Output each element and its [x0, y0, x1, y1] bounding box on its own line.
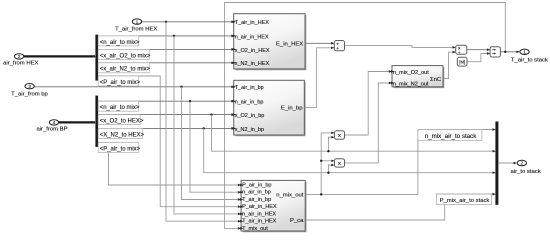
- svg-text:T_air_in_HEX: T_air_in_HEX: [235, 20, 270, 26]
- svg-text:n_air_in_bp: n_air_in_bp: [235, 100, 264, 106]
- svg-text:air_from HEX: air_from HEX: [3, 60, 38, 66]
- svg-text:T_air_in_bp: T_air_in_bp: [235, 85, 264, 91]
- svg-text:<X_N2_to HEX>: <X_N2_to HEX>: [100, 132, 145, 138]
- svg-text:<P_air_to mix>: <P_air_to mix>: [100, 146, 141, 152]
- svg-text:n_mix_O2_out: n_mix_O2_out: [393, 70, 429, 76]
- svg-text:air_from BP: air_from BP: [36, 126, 67, 132]
- svg-text:n_mix_N2_out: n_mix_N2_out: [393, 81, 429, 87]
- svg-text:ΣnC: ΣnC: [430, 77, 442, 83]
- svg-text:P_ca: P_ca: [290, 218, 304, 224]
- svg-text:n_mix_out: n_mix_out: [276, 193, 304, 199]
- svg-text:<x_air_N2_to mix>: <x_air_N2_to mix>: [100, 67, 151, 73]
- svg-text:P_air_in_HEX: P_air_in_HEX: [242, 204, 277, 210]
- svg-text:P_air_in_bp: P_air_in_bp: [242, 182, 271, 188]
- svg-text:2: 2: [521, 161, 524, 166]
- svg-text:÷: ÷: [458, 51, 461, 56]
- svg-text:<x_O2_to HEX>: <x_O2_to HEX>: [100, 119, 144, 125]
- svg-text:<P_air_to mix>: <P_air_to mix>: [100, 80, 141, 86]
- svg-text:x_N2_in_bp: x_N2_in_bp: [235, 127, 264, 133]
- svg-text:x_N2_in_HEX: x_N2_in_HEX: [235, 61, 270, 67]
- svg-text:T_mix_out: T_mix_out: [242, 226, 268, 232]
- svg-text:1: 1: [523, 50, 526, 55]
- svg-text:n_air_in_HEX: n_air_in_HEX: [242, 211, 276, 217]
- svg-text:T_air_from bp: T_air_from bp: [11, 91, 48, 97]
- svg-text:T_air_from HEX: T_air_from HEX: [115, 26, 157, 32]
- svg-text:x: x: [338, 133, 341, 139]
- svg-text:n_mix_air_to stack: n_mix_air_to stack: [425, 133, 477, 140]
- svg-text:T_air_in_bp: T_air_in_bp: [242, 197, 271, 203]
- svg-text:T_air_to stack: T_air_to stack: [511, 58, 548, 64]
- svg-text:x: x: [338, 161, 341, 167]
- svg-text:[M]: [M]: [459, 60, 465, 65]
- svg-text:n_air_in_HEX: n_air_in_HEX: [235, 34, 269, 40]
- svg-text:E_in_HEX: E_in_HEX: [276, 41, 303, 47]
- svg-text:+: +: [336, 47, 339, 52]
- svg-text:E_in_bp: E_in_bp: [281, 106, 303, 112]
- svg-text:air_to stack: air_to stack: [511, 169, 541, 175]
- svg-text:P_mix_air_to stack: P_mix_air_to stack: [440, 198, 490, 204]
- svg-text:1: 1: [136, 19, 139, 24]
- svg-text:<n_air_to mix>: <n_air_to mix>: [100, 40, 140, 46]
- svg-text:n_air_in_bp: n_air_in_bp: [242, 190, 271, 196]
- svg-text:x_O2_in_HEX: x_O2_in_HEX: [235, 48, 270, 54]
- svg-text:3: 3: [28, 84, 31, 89]
- svg-text:T_air_in_HEX: T_air_in_HEX: [242, 219, 277, 225]
- svg-text:<x_air_O2_to mix>: <x_air_O2_to mix>: [100, 53, 151, 59]
- svg-text:4: 4: [53, 120, 56, 125]
- svg-text:2: 2: [18, 54, 21, 59]
- svg-text:x_O2_in_bp: x_O2_in_bp: [235, 113, 265, 119]
- svg-text:<n_air_to mix>: <n_air_to mix>: [100, 105, 140, 111]
